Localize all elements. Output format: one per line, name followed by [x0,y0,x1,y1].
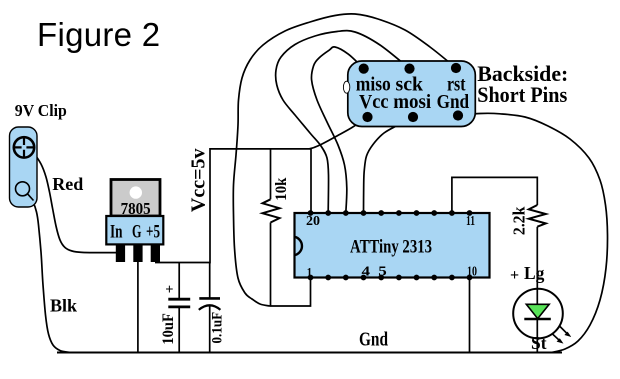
svg-text:G: G [132,222,142,243]
svg-text:1: 1 [307,266,313,281]
svg-text:20: 20 [306,214,320,229]
svg-text:ATTiny 2313: ATTiny 2313 [350,237,432,258]
svg-text:mosi: mosi [393,91,431,113]
svg-text:Short Pins: Short Pins [477,82,567,107]
svg-text:Gnd: Gnd [437,91,470,113]
svg-text:10: 10 [467,264,477,279]
svg-text:Red: Red [52,174,83,194]
svg-text:9V Clip: 9V Clip [15,101,67,120]
svg-text:5: 5 [378,264,387,279]
svg-text:4: 4 [362,264,371,279]
svg-text:Figure 2: Figure 2 [37,16,160,53]
svg-text:Vcc=5v: Vcc=5v [187,149,209,213]
svg-text:0.1uF: 0.1uF [210,312,226,344]
svg-text:2.2k: 2.2k [509,206,528,235]
svg-text:In: In [110,222,123,243]
svg-text:Vcc: Vcc [359,91,389,113]
svg-text:+: + [165,282,173,298]
svg-text:St: St [531,333,547,353]
svg-text:Gnd: Gnd [359,329,388,351]
svg-text:10k: 10k [273,178,290,201]
svg-text:10uF: 10uF [160,313,177,345]
svg-text:Blk: Blk [50,296,77,316]
svg-text:+5: +5 [146,222,160,243]
svg-text:+: + [510,267,519,284]
svg-text:Lg: Lg [524,263,545,283]
svg-text:11: 11 [466,214,475,229]
